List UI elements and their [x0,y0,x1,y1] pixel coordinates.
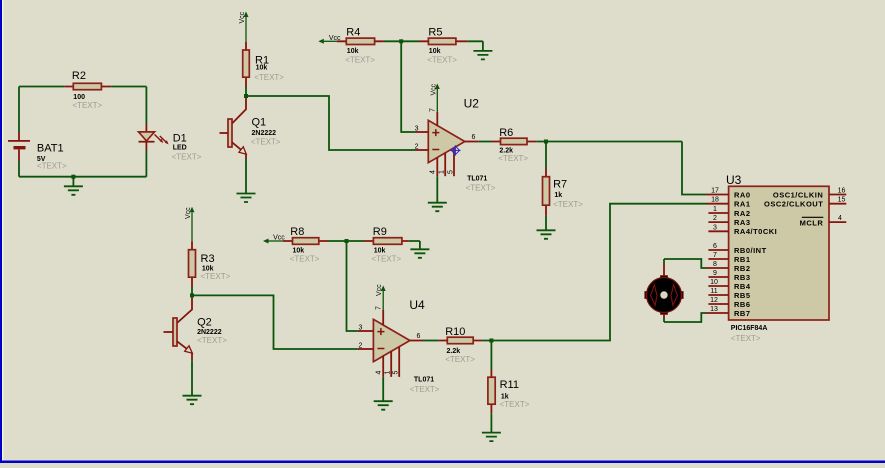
node R4/R5 junction [399,39,403,43]
svg-text:R9: R9 [373,226,387,238]
resistor R7 [543,142,584,216]
svg-text:OSC1/CLKIN: OSC1/CLKIN [773,190,823,199]
wire junction to U4 pin2 [192,295,358,349]
resistor R10 [438,326,482,364]
svg-text:<TEXT>: <TEXT> [731,334,761,343]
svg-text:18: 18 [711,197,719,204]
node R6/R7 junction [544,140,548,144]
svg-text:R5: R5 [428,26,442,38]
wire R2 to LED corner [111,87,146,125]
transistor Q2 [164,295,228,395]
window border left [0,0,2,463]
wire junction down to U2 pin3 [401,41,415,132]
svg-text:R10: R10 [445,326,465,338]
ground U4 [374,401,393,410]
pin 10 RB4 [708,285,728,287]
power Vcc terminal above U4 pin7 [376,284,386,310]
svg-text:4: 4 [375,371,382,375]
op-amp U2 [415,97,496,193]
svg-text:RB7: RB7 [734,309,751,318]
svg-text:<TEXT>: <TEXT> [500,400,530,409]
svg-text:1: 1 [713,206,717,213]
power Vcc terminal left of R8 [263,234,285,243]
pin 17 RA0 [706,194,729,196]
svg-text:1: 1 [385,371,392,375]
pin 15 OSC2/CLKOUT [829,203,846,205]
ground R11 [482,433,501,442]
svg-text:15: 15 [838,197,846,204]
resistor R9 [364,226,409,263]
svg-text:10: 10 [710,279,718,286]
svg-text:Q1: Q1 [252,117,267,129]
svg-text:<TEXT>: <TEXT> [197,336,227,345]
svg-text:<TEXT>: <TEXT> [410,385,440,394]
svg-text:R3: R3 [201,253,215,265]
svg-text:<TEXT>: <TEXT> [553,200,583,209]
wire R10 to U3 RA1 [482,204,706,341]
ground right of R5 [473,51,492,60]
svg-text:R11: R11 [500,379,519,391]
power Vcc terminal above U2 pin7 [430,83,440,112]
svg-text:9: 9 [713,270,717,277]
svg-text:RB5: RB5 [734,291,751,300]
pin 4 MCLR [829,221,846,223]
ground Q1 [237,194,256,203]
svg-text:6: 6 [472,134,476,141]
svg-text:BAT1: BAT1 [37,143,64,155]
svg-text:2: 2 [713,215,717,222]
resistor R4 [337,26,384,64]
svg-text:<TEXT>: <TEXT> [201,272,231,281]
svg-text:<TEXT>: <TEXT> [466,184,496,193]
resistor R6 [492,127,537,163]
led D1 [139,124,202,162]
svg-text:<TEXT>: <TEXT> [290,255,320,264]
svg-text:PIC16F84A: PIC16F84A [731,325,768,332]
svg-text:D1: D1 [173,133,187,145]
svg-text:<TEXT>: <TEXT> [172,153,202,162]
svg-text:<TEXT>: <TEXT> [498,154,528,163]
svg-text:2N2222: 2N2222 [252,130,277,137]
wire junction to U2 pin2 [246,96,416,150]
svg-text:Q2: Q2 [197,317,212,329]
svg-text:3: 3 [359,325,363,332]
svg-text:2: 2 [415,144,419,151]
wire bottom of loop [19,176,146,178]
resistor R5 [419,26,467,64]
svg-text:1: 1 [439,170,446,174]
wire R8 to R9 [328,240,364,242]
pin 7 RB1 [708,258,728,260]
svg-text:7: 7 [713,252,717,259]
pin 2 RA3 [708,221,728,223]
svg-text:RB2: RB2 [734,264,751,273]
svg-text:U3: U3 [726,173,742,187]
svg-text:17: 17 [711,188,719,195]
svg-text:<TEXT>: <TEXT> [72,101,102,110]
svg-text:11: 11 [710,288,717,295]
svg-text:100: 100 [73,94,85,101]
svg-text:RB4: RB4 [734,282,751,291]
svg-text:RB6: RB6 [734,300,751,309]
svg-text:<TEXT>: <TEXT> [251,137,281,146]
svg-text:RA4/T0CKI: RA4/T0CKI [734,227,777,236]
pin 6 RB0/INT [708,249,728,251]
svg-text:RB1: RB1 [734,255,751,264]
wire R7 to ground [545,216,547,230]
pin 1 RA2 [708,212,728,214]
pin 16 OSC1/CLKIN [829,194,846,196]
ground [64,186,83,195]
svg-text:10k: 10k [429,48,441,55]
power Vcc terminal above R1 [239,11,249,42]
svg-text:12: 12 [710,297,718,304]
wire R9 to ground [409,241,420,249]
svg-text:Vcc: Vcc [239,11,246,23]
svg-text:U2: U2 [464,97,480,111]
wire R1 to junction [245,87,247,96]
ground right of R9 [410,249,429,257]
svg-text:Vcc: Vcc [430,83,437,95]
svg-text:4: 4 [430,170,437,174]
wire R6 to U3 RA0 [536,142,706,195]
wire U4 output to R10 [423,340,438,342]
svg-text:TL071: TL071 [467,176,487,183]
ground R7 [537,230,556,239]
svg-text:8: 8 [713,261,717,268]
wire U2 output to R6 [479,141,492,143]
power Vcc terminal left of R4 [318,35,341,44]
svg-text:<TEXT>: <TEXT> [37,162,67,171]
pin 18 RA1 [706,203,729,205]
node R3/Q2 junction [190,293,194,297]
ground U2 [428,203,447,212]
resistor R8 [283,226,328,263]
wire R11 to ground [490,413,492,432]
svg-text:R2: R2 [72,70,86,82]
pin 12 RB6 [708,303,728,305]
ground Q2 [183,396,202,405]
svg-text:5: 5 [448,170,455,174]
resistor R11 [488,341,530,414]
pin 8 RB2 [706,267,729,269]
pin 3 RA4/T0CKI [708,230,728,232]
wire ground stub [72,177,74,187]
motor [645,264,683,318]
wire U2 pin4 to ground [436,176,438,202]
svg-text:Vcc: Vcc [185,207,192,219]
op-amp U4 [358,298,440,394]
svg-text:10k: 10k [347,48,359,55]
svg-text:13: 13 [710,306,718,313]
svg-text:1k: 1k [554,192,562,199]
battery BAT1 [8,87,67,177]
svg-text:U4: U4 [409,298,425,312]
svg-text:R7: R7 [553,179,567,191]
power Vcc terminal above R3 [185,207,195,242]
node R8/R9 junction [345,239,349,243]
svg-text:6: 6 [417,333,421,340]
svg-text:MCLR: MCLR [800,218,824,227]
resistor R2 [64,70,111,110]
svg-text:<TEXT>: <TEXT> [445,355,475,364]
pin 13 RB7 [706,312,729,314]
resistor R1 [243,42,285,87]
resistor R3 [189,242,231,288]
wire motor top to U3 RB2 [664,259,706,268]
svg-text:R8: R8 [290,226,304,238]
svg-text:7: 7 [430,108,437,112]
svg-text:2: 2 [359,343,363,350]
node R1/Q1 junction [244,94,248,98]
node battery ground junction [71,175,75,179]
svg-text:RA2: RA2 [734,209,751,218]
svg-text:16: 16 [838,188,846,195]
svg-text:4: 4 [838,215,842,222]
svg-text:OSC2/CLKOUT: OSC2/CLKOUT [764,200,823,209]
svg-text:3: 3 [713,224,717,231]
svg-text:R4: R4 [346,26,360,38]
wire LED to bottom [145,151,147,177]
microcontroller U3 PIC16F84A [726,173,829,343]
wire R4 to R5 [384,40,419,42]
svg-text:TL071: TL071 [414,377,434,384]
transistor Q1 [220,96,281,194]
wire R5 to ground [467,41,483,50]
svg-text:<TEXT>: <TEXT> [427,55,457,64]
svg-text:<TEXT>: <TEXT> [345,55,375,64]
svg-text:R6: R6 [499,127,513,139]
svg-text:RB3: RB3 [734,273,751,282]
svg-text:6: 6 [713,243,717,250]
svg-text:7: 7 [375,306,382,310]
wire R3 to junction [191,287,193,295]
svg-text:<TEXT>: <TEXT> [254,73,284,82]
svg-text:LED: LED [173,145,187,152]
wire U4 pin4 to ground [382,377,384,401]
svg-text:RA1: RA1 [734,200,751,209]
svg-text:RA3: RA3 [734,218,751,227]
svg-text:Vcc: Vcc [376,284,383,296]
svg-text:RA0: RA0 [734,190,751,199]
svg-text:RB0/INT: RB0/INT [734,246,767,255]
svg-text:5: 5 [393,371,400,375]
node marker (blue) at U2 pin5 [450,145,460,155]
node R10/R11 junction [489,339,493,343]
svg-text:3: 3 [415,126,419,133]
wire motor bottom to U3 RB7 [664,313,706,322]
window border bottom [0,461,885,464]
pin 9 RB3 [708,276,728,278]
wire junction down to U4 pin3 [347,241,358,331]
pin 11 RB5 [708,294,728,296]
svg-text:10k: 10k [256,65,268,72]
svg-text:<TEXT>: <TEXT> [371,255,401,264]
wire battery top to R2 [19,86,64,88]
